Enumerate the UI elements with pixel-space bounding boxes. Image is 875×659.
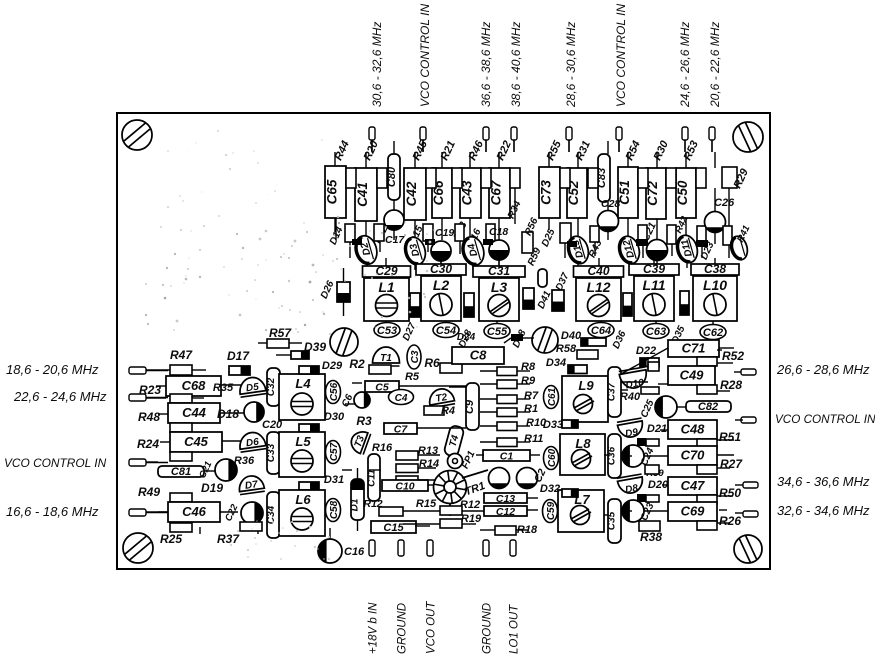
mounting screw bottom-left — [123, 533, 153, 563]
pad right pad 3 — [743, 482, 758, 488]
label C21 — [640, 220, 659, 243]
label D40 — [561, 330, 582, 342]
diode D30 — [299, 424, 319, 432]
label C16 — [344, 546, 365, 558]
label R28 — [720, 378, 742, 392]
svg-text:C15: C15 — [383, 522, 404, 534]
label R4 — [441, 405, 455, 417]
label D17 — [227, 349, 250, 363]
capacitor C50 — [675, 168, 696, 218]
label R18 — [517, 524, 538, 536]
capacitor C9 — [464, 383, 479, 430]
diode D24 mark — [511, 334, 523, 341]
svg-text:L1: L1 — [378, 279, 395, 295]
capacitor C81 — [158, 466, 204, 478]
svg-text:C10: C10 — [395, 481, 414, 493]
label R22 — [495, 139, 514, 162]
svg-text:L8: L8 — [575, 436, 591, 451]
svg-text:C71: C71 — [682, 341, 706, 356]
label TR1 — [463, 480, 487, 498]
capacitor C33 — [266, 432, 280, 474]
svg-text:R48: R48 — [138, 410, 160, 424]
diode D1 — [350, 479, 365, 521]
resistor r5 body — [486, 224, 495, 241]
transistor T3 — [348, 428, 371, 454]
diode D32 — [562, 489, 578, 497]
wire top pad 4 lead — [513, 140, 515, 152]
svg-text:C56: C56 — [329, 382, 340, 401]
diode mark e — [483, 239, 493, 245]
capacitor C61 (oval label) — [544, 386, 559, 409]
net label GROUND (bottom) — [397, 603, 409, 654]
label R10 — [526, 417, 547, 429]
svg-text:C50: C50 — [675, 180, 690, 205]
label R40 — [620, 391, 641, 403]
transistor/trimmer C18 — [489, 240, 509, 260]
net label 32,6-34,6 MHz (right) — [777, 503, 870, 518]
label C6 — [340, 392, 356, 409]
resistor R16 body — [396, 451, 418, 460]
diode D37 — [552, 290, 564, 311]
resistor R25 body — [170, 523, 192, 532]
wire D24 lead — [504, 338, 534, 343]
label D38 — [511, 328, 529, 350]
net label 36,6 - 38,6 MHz (top) — [479, 22, 493, 107]
capacitor C54 (oval label) — [433, 323, 459, 338]
svg-text:+18V b IN: +18V b IN — [368, 602, 380, 654]
svg-text:R36: R36 — [234, 455, 255, 467]
diode D13 — [565, 234, 592, 266]
resistor R53 body — [696, 168, 706, 188]
pad bottom pad 5 — [510, 540, 516, 556]
inductor L8 — [560, 434, 605, 475]
svg-text:C57: C57 — [329, 442, 340, 461]
svg-text:24,6 - 26,6 MHz: 24,6 - 26,6 MHz — [678, 22, 692, 108]
svg-text:R12: R12 — [460, 499, 480, 511]
svg-text:C35: C35 — [607, 511, 618, 530]
resistor R2 body — [369, 365, 391, 374]
label R55 — [545, 138, 565, 162]
wire inductor feed wires — [386, 256, 715, 325]
resistor R37 body — [240, 522, 262, 531]
diode mark a — [636, 239, 648, 246]
label D32 — [540, 483, 560, 495]
capacitor C15 — [371, 521, 416, 534]
capacitor C8 — [452, 347, 504, 364]
resistor R46 body — [481, 168, 491, 188]
net label 18,6-20,6 MHz (left) — [6, 362, 99, 377]
svg-text:D30: D30 — [324, 411, 345, 423]
diode D36 — [623, 293, 632, 316]
net label 30,6 - 32,6 MHz (top) — [370, 22, 384, 107]
trimmer TR1 — [434, 470, 489, 516]
resistor R18 body — [495, 526, 516, 535]
resistor R4 body — [424, 406, 444, 415]
svg-text:R58: R58 — [556, 343, 577, 355]
net label 24,6 - 26,6 MHz (top) — [678, 22, 692, 108]
svg-text:GROUND: GROUND — [397, 603, 409, 654]
resistor R22 body — [510, 168, 520, 188]
capacitor C66 — [431, 168, 452, 218]
transistor/trimmer C22 — [241, 502, 263, 524]
label R39 — [646, 468, 664, 479]
svg-text:VCO CONTROL IN: VCO CONTROL IN — [418, 4, 432, 107]
diode mark f — [567, 241, 577, 247]
label R57 — [269, 326, 292, 340]
resistor R29 body — [722, 167, 737, 188]
label D26 — [319, 279, 337, 301]
resistor R23 body — [170, 394, 192, 403]
transistor/trimmer C21b — [215, 459, 237, 481]
inductor L7 — [558, 490, 604, 532]
label D33 — [543, 419, 563, 431]
capacitor C41 — [355, 168, 377, 221]
label R3 — [356, 414, 372, 428]
pad right pad 4 — [743, 511, 758, 517]
inductor L2 with trimmer cap C30 — [416, 262, 466, 321]
svg-text:R52: R52 — [722, 349, 744, 363]
label C26 — [714, 197, 735, 209]
label R34 — [506, 199, 524, 221]
resistor R7 body — [497, 395, 517, 404]
svg-text:C62: C62 — [703, 327, 723, 339]
label R23 — [139, 383, 161, 397]
svg-text:D40: D40 — [561, 330, 582, 342]
svg-text:C30: C30 — [430, 262, 452, 276]
label R27 — [720, 457, 743, 471]
net label 38,6 - 40,6 MHz (top) — [509, 22, 523, 107]
svg-text:L10: L10 — [703, 277, 727, 293]
svg-text:D22: D22 — [636, 345, 656, 357]
capacitor C35 — [607, 499, 622, 543]
svg-text:C46: C46 — [182, 504, 207, 519]
transistor/trimmer C16 — [318, 539, 342, 563]
svg-text:R6: R6 — [424, 356, 440, 370]
resistor R58 body — [577, 350, 598, 359]
svg-text:D32: D32 — [540, 483, 560, 495]
svg-text:C63: C63 — [646, 326, 666, 338]
resistor R11 body — [497, 438, 517, 447]
resistor R59 body — [538, 269, 547, 287]
resistor r1 body — [345, 224, 355, 242]
diode D34 — [568, 365, 587, 374]
inductor L4 — [279, 374, 325, 420]
label C25 — [639, 398, 657, 420]
label D28 — [457, 328, 475, 350]
label R53 — [682, 139, 701, 162]
wire bus wires top — [335, 140, 715, 168]
label D14 — [328, 225, 346, 247]
svg-text:R15: R15 — [416, 498, 437, 510]
svg-text:C34: C34 — [266, 505, 277, 524]
svg-text:C37: C37 — [607, 382, 618, 401]
label R52 — [722, 349, 744, 363]
label R21 — [439, 139, 458, 162]
svg-text:28,6 - 30,6 MHz: 28,6 - 30,6 MHz — [564, 22, 578, 108]
resistor R48 body — [170, 423, 192, 432]
svg-text:C69: C69 — [681, 504, 706, 519]
svg-text:L4: L4 — [295, 376, 311, 391]
svg-text:C8: C8 — [470, 348, 487, 363]
resistor r3 body — [423, 224, 433, 241]
inductor L11 with trimmer cap C39 — [629, 262, 679, 321]
label R16 — [372, 442, 393, 454]
capacitor C12 — [484, 506, 527, 518]
net label GROUND (bottom) — [482, 603, 494, 654]
label R13 — [418, 445, 438, 457]
label R42 — [673, 214, 691, 235]
label C23 — [639, 501, 657, 523]
resistor R24 body — [170, 452, 192, 461]
label C24 — [639, 446, 657, 468]
label D18 — [217, 407, 239, 421]
capacitor C52 — [566, 168, 587, 218]
net label 16,6-18,6 MHz (left) — [6, 504, 99, 519]
svg-text:C26: C26 — [714, 197, 735, 209]
wire D1 leads — [357, 468, 359, 531]
svg-text:C60: C60 — [547, 448, 558, 467]
transistor D10 — [619, 367, 649, 392]
svg-text:C44: C44 — [182, 405, 207, 420]
capacitor C51 — [617, 167, 638, 218]
resistor R44 body — [346, 168, 356, 188]
svg-text:C64: C64 — [591, 325, 611, 337]
capacitor C70 — [668, 446, 717, 465]
svg-text:R1: R1 — [524, 403, 538, 415]
label R41 — [735, 224, 752, 244]
wire top pad 3 lead — [485, 140, 487, 152]
net label VCO CONTROL IN (right) — [775, 413, 875, 426]
label R17 — [363, 498, 382, 510]
wire left pad 3 lead — [146, 462, 168, 464]
svg-text:D18: D18 — [217, 407, 239, 421]
capacitor C4 (oval label) — [389, 390, 414, 405]
label R46 — [467, 138, 487, 162]
resistor R19 body — [440, 519, 462, 528]
diode mark g — [637, 438, 646, 446]
label R36 — [234, 455, 255, 467]
svg-text:R12: R12 — [363, 498, 382, 510]
label R56 — [523, 216, 541, 238]
wire top bank left leads — [335, 188, 515, 270]
resistor R26a body — [697, 521, 717, 530]
capacitor C34 — [266, 492, 280, 538]
diode D31 — [299, 482, 319, 490]
label R7 — [524, 390, 539, 402]
resistor R57 body — [267, 339, 289, 348]
resistor R27a body — [697, 465, 717, 474]
resistor r16 body — [646, 495, 659, 502]
label R59 — [526, 246, 544, 268]
svg-text:R47: R47 — [170, 348, 193, 362]
capacitor C82 — [686, 401, 731, 413]
label R5 — [405, 371, 420, 383]
transistor/trimmer C2b — [517, 468, 538, 489]
label D29b — [322, 360, 343, 372]
resistor R21 body — [452, 168, 462, 188]
pad left pad 2 — [129, 394, 146, 401]
svg-text:26,6 - 28,6 MHz: 26,6 - 28,6 MHz — [776, 362, 870, 377]
svg-text:L12: L12 — [586, 279, 610, 295]
svg-text:R57: R57 — [269, 326, 292, 340]
net label 34,6-36,6 MHz (right) — [777, 474, 870, 489]
resistor R9 body — [497, 380, 517, 389]
svg-text:C65: C65 — [325, 179, 340, 204]
svg-text:R40: R40 — [620, 391, 641, 403]
pad top pad 8 — [709, 127, 715, 140]
inductor L12 with trimmer cap C40 — [574, 264, 624, 321]
label R43 — [587, 238, 605, 260]
svg-text:C11: C11 — [367, 469, 378, 487]
mounting screw top-left — [122, 120, 152, 150]
wire R57 leads — [258, 342, 302, 344]
capacitor C71 — [668, 340, 719, 357]
svg-text:R49: R49 — [138, 485, 160, 499]
svg-text:R2: R2 — [349, 357, 365, 371]
svg-text:VCO CONTROL IN: VCO CONTROL IN — [614, 4, 628, 107]
svg-text:36,6 - 38,6 MHz: 36,6 - 38,6 MHz — [479, 22, 493, 107]
label R32 — [373, 224, 391, 246]
resistor R31 body — [588, 168, 598, 188]
net label VCO CONTROL IN (top) — [614, 4, 628, 107]
svg-text:34,6 - 36,6 MHz: 34,6 - 36,6 MHz — [777, 474, 870, 489]
pad bottom pad 1 — [369, 540, 375, 556]
pad left pad 1 — [129, 367, 146, 374]
capacitor C13 — [484, 493, 527, 505]
resistor R15 body — [379, 507, 403, 516]
resistor r11 body — [723, 226, 732, 245]
svg-text:L6: L6 — [295, 492, 311, 507]
svg-text:C53: C53 — [377, 325, 397, 337]
label D24 — [457, 332, 476, 343]
svg-text:R24: R24 — [137, 437, 159, 451]
net label 20,6 - 22,6 MHz (top) — [708, 22, 722, 108]
resistor R10 body — [497, 422, 517, 431]
svg-text:C41: C41 — [355, 182, 370, 207]
pad top pad 6 — [616, 127, 622, 140]
net label LO1 OUT (bottom) — [509, 604, 521, 654]
label R20 — [362, 138, 382, 162]
wire left pad 2 lead — [146, 397, 168, 399]
inductor L3 with trimmer cap C31 — [473, 264, 525, 321]
resistor R52a body — [697, 357, 717, 366]
capacitor C42 — [404, 168, 426, 220]
label R8 — [521, 361, 536, 373]
label R19 — [461, 513, 482, 525]
net label 26,6-28,6 MHz (right) — [776, 362, 870, 377]
svg-text:D19: D19 — [201, 481, 223, 495]
label R54 — [624, 139, 643, 162]
transistor D9 — [617, 418, 645, 441]
pad top pad 2 — [420, 127, 426, 140]
svg-text:C73: C73 — [539, 180, 554, 205]
resistor R55 body — [560, 168, 570, 188]
pad bottom pad 3 — [427, 540, 433, 556]
capacitor C53 (oval label) — [374, 323, 400, 338]
label D34 — [546, 357, 566, 369]
svg-text:38,6 - 40,6 MHz: 38,6 - 40,6 MHz — [509, 22, 523, 107]
resistor R47 body — [170, 365, 192, 375]
capacitor C1 — [483, 450, 530, 463]
capacitor C45 — [170, 432, 222, 452]
svg-text:D34: D34 — [546, 357, 566, 369]
resistor r4 body — [455, 224, 464, 241]
label R48 — [138, 410, 160, 424]
svg-text:20,6 - 22,6 MHz: 20,6 - 22,6 MHz — [708, 22, 722, 108]
label R25 — [160, 532, 182, 546]
resistor R13 body — [396, 464, 418, 473]
svg-text:32,6 - 34,6 MHz: 32,6 - 34,6 MHz — [777, 503, 870, 518]
label R30 — [652, 138, 672, 162]
label R33 — [452, 220, 470, 242]
wire top pad 1 lead — [371, 140, 373, 152]
svg-text:C1: C1 — [500, 451, 514, 463]
trimmer hole FP1 — [448, 454, 463, 469]
svg-text:C45: C45 — [184, 434, 209, 449]
wire left pad 4 lead — [146, 512, 168, 514]
svg-text:C32: C32 — [266, 377, 277, 396]
svg-text:D1: D1 — [350, 498, 361, 511]
resistor R1 body — [497, 408, 517, 417]
mounting screw top-right — [733, 122, 763, 152]
label D30 — [324, 411, 345, 423]
capacitor C36 — [607, 434, 622, 478]
pad left pad 3 — [129, 459, 146, 466]
wire R8 leads — [480, 370, 530, 372]
label D41 — [536, 289, 554, 311]
capacitor C67 — [489, 168, 511, 218]
label R9 — [521, 375, 536, 387]
pad bottom pad 4 — [483, 540, 489, 556]
capacitor C64 (oval label) — [588, 323, 614, 338]
resistor r7 body — [590, 226, 599, 242]
label D15 — [408, 224, 426, 246]
svg-text:R7: R7 — [524, 390, 539, 402]
svg-text:VCO OUT: VCO OUT — [426, 601, 438, 654]
label D35 — [670, 324, 688, 346]
capacitor C10 — [382, 480, 428, 493]
wire top pad 6 lead — [618, 140, 620, 152]
svg-text:D21: D21 — [647, 423, 667, 435]
svg-text:D29: D29 — [322, 360, 343, 372]
transistor T1 — [373, 347, 400, 366]
diode D4 — [459, 234, 487, 268]
label D21 — [647, 423, 667, 435]
svg-text:L2: L2 — [433, 277, 450, 293]
svg-text:C3: C3 — [410, 350, 421, 363]
label D27 — [401, 321, 419, 343]
resistor R8 body — [497, 367, 517, 376]
label R1 — [524, 403, 538, 415]
svg-text:R11: R11 — [524, 433, 543, 445]
label R14 — [419, 458, 439, 470]
label R50 — [719, 486, 741, 500]
svg-text:D17: D17 — [227, 349, 250, 363]
svg-text:R23: R23 — [139, 383, 161, 397]
svg-text:R35: R35 — [213, 382, 234, 394]
label D39 — [304, 340, 326, 354]
resistor r8 body — [638, 225, 647, 244]
capacitor C58 (oval label) — [326, 499, 341, 522]
resistor R51a body — [697, 439, 717, 448]
resistor R45 body — [426, 168, 436, 188]
wire D26 leads — [343, 268, 345, 316]
svg-text:C17: C17 — [385, 234, 405, 246]
capacitor C56 (oval label) — [326, 381, 341, 404]
wire R10 leads — [480, 425, 530, 427]
svg-text:T2: T2 — [435, 392, 449, 405]
transistor/trimmer D18c — [244, 402, 264, 422]
